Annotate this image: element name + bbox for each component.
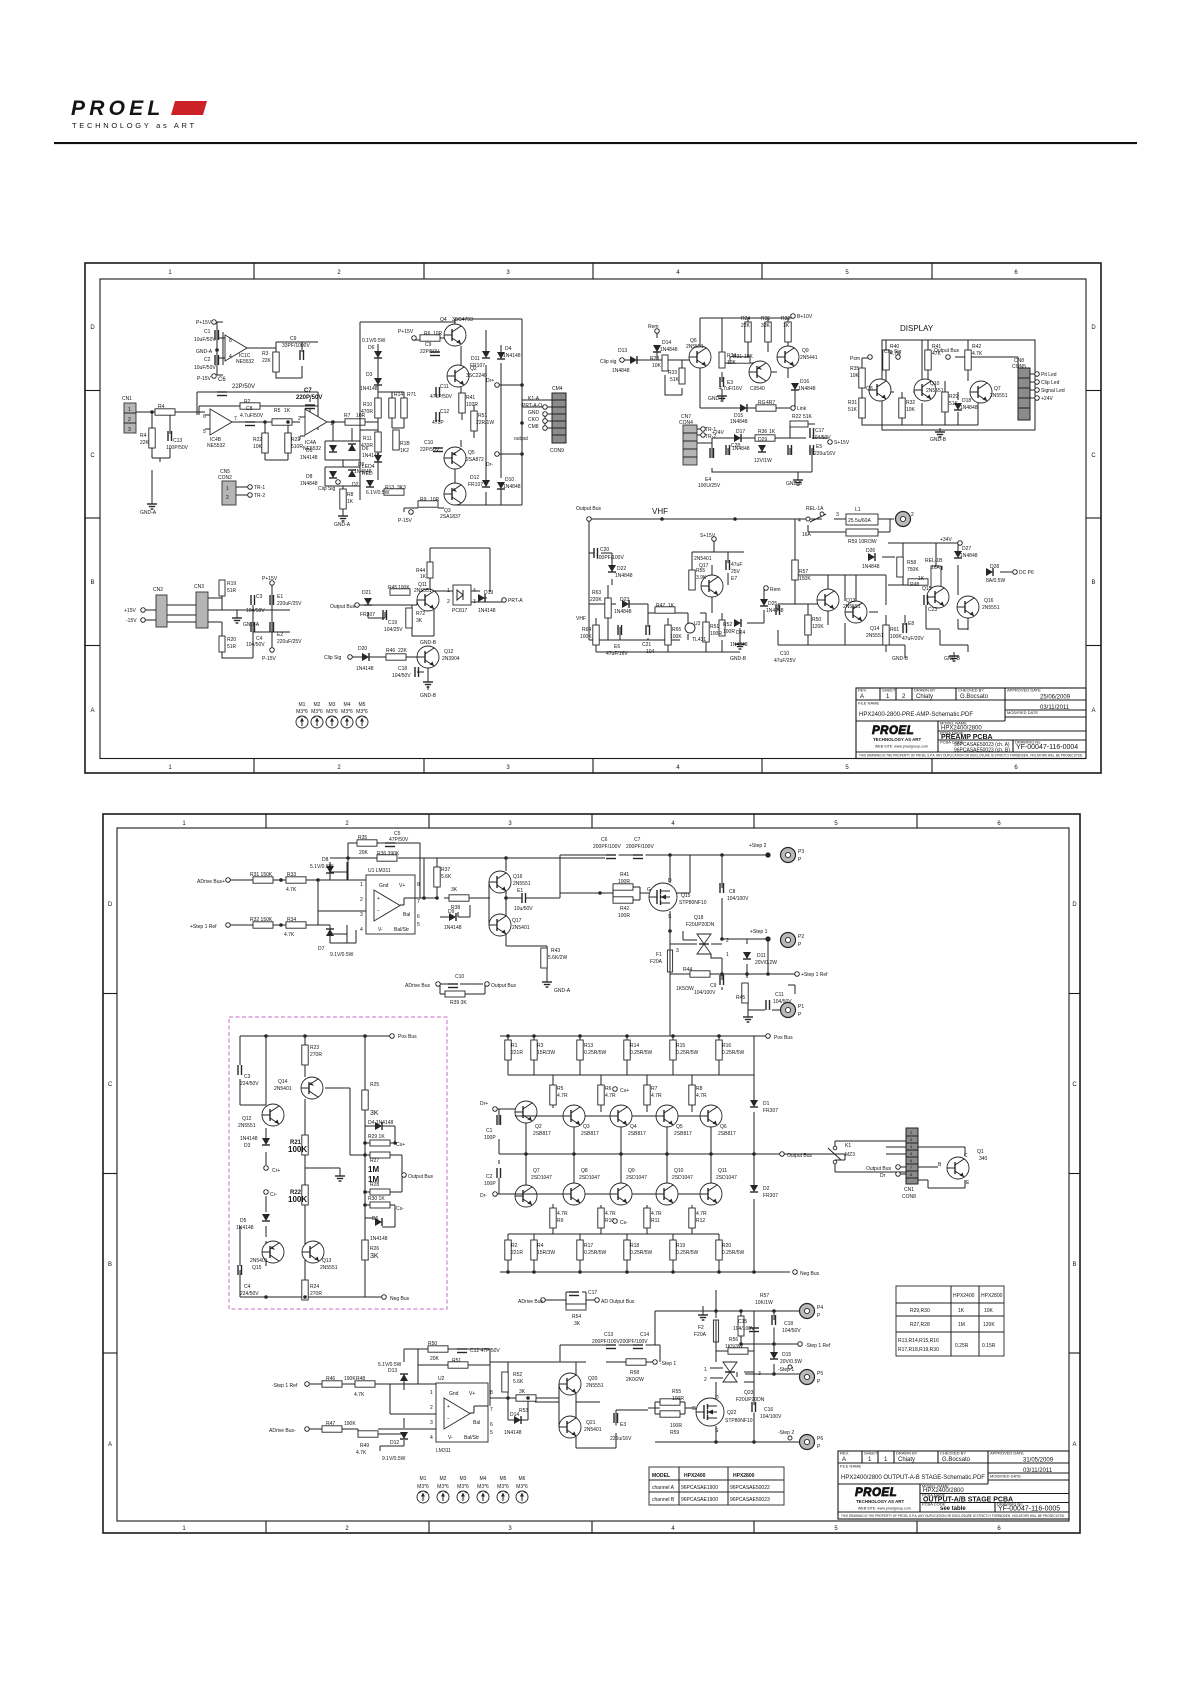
svg-text:2N5551: 2N5551 xyxy=(320,1265,338,1271)
svg-text:C16: C16 xyxy=(764,1407,773,1413)
svg-text:WEB SITE: www.proelgroup.com: WEB SITE: www.proelgroup.com xyxy=(875,745,928,749)
svg-text:22P/50V: 22P/50V xyxy=(420,447,440,453)
svg-text:channel A: channel A xyxy=(652,1485,675,1491)
svg-text:D6: D6 xyxy=(372,1216,379,1222)
svg-text:16A: 16A xyxy=(802,532,812,538)
svg-text:220uF/25V: 220uF/25V xyxy=(277,601,302,607)
svg-text:D8: D8 xyxy=(306,474,313,480)
svg-text:REV.: REV. xyxy=(840,1451,849,1456)
svg-text:A: A xyxy=(1072,1442,1076,1448)
svg-text:R18: R18 xyxy=(630,1243,639,1249)
svg-text:R7: R7 xyxy=(651,1086,658,1092)
svg-text:R19: R19 xyxy=(227,581,236,587)
svg-text:100R: 100R xyxy=(618,879,630,885)
svg-text:Dr+: Dr+ xyxy=(480,1101,488,1107)
svg-text:+: + xyxy=(377,896,380,902)
svg-text:GND-A: GND-A xyxy=(243,622,260,628)
svg-text:R10: R10 xyxy=(363,402,372,408)
svg-text:5.6K/2W: 5.6K/2W xyxy=(548,955,567,961)
svg-text:R50: R50 xyxy=(428,1341,437,1347)
svg-text:R19: R19 xyxy=(676,1243,685,1249)
svg-text:A: A xyxy=(108,1442,112,1448)
svg-text:R42: R42 xyxy=(620,906,629,912)
svg-text:E6: E6 xyxy=(614,644,620,650)
svg-text:4.7K: 4.7K xyxy=(284,932,295,938)
svg-text:10uF/50V: 10uF/50V xyxy=(194,337,216,343)
svg-text:96PCASAE50023: 96PCASAE50023 xyxy=(730,1497,770,1503)
svg-text:200PF/100V: 200PF/100V xyxy=(593,844,621,850)
svg-text:1N4148: 1N4148 xyxy=(236,1225,254,1231)
svg-text:A: A xyxy=(1091,708,1095,714)
svg-text:Chiaty: Chiaty xyxy=(898,1457,915,1463)
svg-text:V-: V- xyxy=(378,927,383,933)
svg-text:D16: D16 xyxy=(800,379,809,385)
svg-text:2: 2 xyxy=(704,1377,707,1383)
svg-text:SHEET: SHEET xyxy=(864,1451,878,1456)
svg-text:C13: C13 xyxy=(604,1332,613,1338)
svg-text:R51: R51 xyxy=(452,1358,461,1364)
svg-text:1N4148: 1N4148 xyxy=(370,1236,388,1242)
svg-text:R37: R37 xyxy=(441,867,450,873)
svg-text:HPX2400/2800 OUTPUT-A-B STAGE-: HPX2400/2800 OUTPUT-A-B STAGE-Schematic.… xyxy=(841,1475,985,1481)
svg-text:5.1V/0.5W: 5.1V/0.5W xyxy=(378,1362,402,1368)
svg-text:Output Bus: Output Bus xyxy=(491,983,517,989)
svg-text:GND: GND xyxy=(528,410,540,416)
svg-text:TR-2: TR-2 xyxy=(254,493,265,499)
svg-text:2: 2 xyxy=(360,897,363,903)
svg-text:4: 4 xyxy=(430,1435,433,1441)
svg-text:100K: 100K xyxy=(580,634,592,640)
svg-text:P2: P2 xyxy=(798,934,804,940)
svg-text:Q16: Q16 xyxy=(513,874,523,880)
svg-text:P: P xyxy=(817,1313,821,1319)
svg-text:1: 1 xyxy=(886,694,890,700)
svg-text:100U/25V: 100U/25V xyxy=(698,483,721,489)
svg-text:Bal: Bal xyxy=(473,1420,480,1426)
svg-text:2N5441: 2N5441 xyxy=(800,355,818,361)
svg-text:Q13: Q13 xyxy=(322,1258,332,1264)
svg-text:P4: P4 xyxy=(817,1305,823,1311)
svg-text:C4: C4 xyxy=(244,1284,251,1290)
svg-text:FR307: FR307 xyxy=(763,1193,778,1199)
svg-text:47uF: 47uF xyxy=(731,562,742,568)
svg-text:C21: C21 xyxy=(642,642,651,648)
svg-text:220u/16V: 220u/16V xyxy=(814,451,836,457)
svg-text:3SC2240: 3SC2240 xyxy=(466,373,487,379)
svg-text:P6: P6 xyxy=(817,1436,823,1442)
svg-text:Q2: Q2 xyxy=(535,1124,542,1130)
svg-text:10u/50V: 10u/50V xyxy=(514,906,533,912)
svg-text:104/100V: 104/100V xyxy=(760,1414,782,1420)
svg-text:470R: 470R xyxy=(361,409,373,415)
svg-text:C11: C11 xyxy=(440,384,449,390)
svg-text:D3: D3 xyxy=(366,372,373,378)
svg-text:R8: R8 xyxy=(347,492,354,498)
svg-text:R43: R43 xyxy=(551,948,560,954)
svg-text:1M: 1M xyxy=(368,1175,379,1184)
svg-text:D20: D20 xyxy=(358,646,367,652)
svg-text:1N4148: 1N4148 xyxy=(503,353,521,359)
svg-text:Q7: Q7 xyxy=(533,1168,540,1174)
svg-text:Cs-: Cs- xyxy=(396,1206,404,1212)
svg-text:25.5u/60A: 25.5u/60A xyxy=(848,518,871,524)
svg-text:Output Bus: Output Bus xyxy=(408,1174,434,1180)
svg-text:R4: R4 xyxy=(158,404,165,410)
svg-text:4.7uF/16V: 4.7uF/16V xyxy=(719,386,743,392)
svg-text:104/50V: 104/50V xyxy=(773,999,792,1005)
svg-text:D5: D5 xyxy=(240,1218,247,1224)
svg-text:5: 5 xyxy=(845,270,849,276)
svg-text:1N4848: 1N4848 xyxy=(862,564,880,570)
svg-text:REL-1A: REL-1A xyxy=(806,506,824,512)
svg-text:2N5401: 2N5401 xyxy=(584,1427,602,1433)
svg-text:Psm: Psm xyxy=(850,356,860,362)
svg-text:C9: C9 xyxy=(425,342,432,348)
svg-text:GND-B: GND-B xyxy=(708,396,725,402)
svg-text:R3: R3 xyxy=(262,351,269,357)
svg-text:22K: 22K xyxy=(398,648,408,654)
svg-text:1: 1 xyxy=(884,1457,888,1463)
svg-text:C9: C9 xyxy=(710,983,717,989)
svg-text:M3*6: M3*6 xyxy=(311,709,323,715)
svg-text:GND-A: GND-A xyxy=(196,349,213,355)
svg-text:10R: 10R xyxy=(433,331,443,337)
svg-text:4: 4 xyxy=(229,354,232,360)
svg-text:D29: D29 xyxy=(758,437,767,443)
svg-text:510R: 510R xyxy=(291,444,303,450)
svg-text:1K: 1K xyxy=(420,574,427,580)
svg-text:100R: 100R xyxy=(618,913,630,919)
svg-text:C23: C23 xyxy=(928,607,937,613)
svg-text:6: 6 xyxy=(1014,765,1018,771)
svg-text:221R: 221R xyxy=(511,1050,523,1056)
svg-text:R51: R51 xyxy=(478,413,487,419)
svg-text:3: 3 xyxy=(836,512,839,518)
svg-text:R31: R31 xyxy=(848,400,857,406)
svg-text:PROEL: PROEL xyxy=(855,1487,897,1499)
svg-text:D13: D13 xyxy=(388,1368,397,1374)
svg-text:see table: see table xyxy=(940,1506,966,1512)
svg-text:0.25R/5W: 0.25R/5W xyxy=(630,1250,653,1256)
svg-text:10R: 10R xyxy=(430,497,440,503)
svg-text:NE5532: NE5532 xyxy=(236,359,254,365)
svg-text:1: 1 xyxy=(868,1457,872,1463)
svg-text:D11: D11 xyxy=(471,356,480,362)
svg-text:C17: C17 xyxy=(588,1290,597,1296)
svg-text:TR-1: TR-1 xyxy=(254,485,265,491)
svg-text:221R: 221R xyxy=(511,1250,523,1256)
svg-text:M3*6: M3*6 xyxy=(326,709,338,715)
svg-text:HPX2800: HPX2800 xyxy=(981,1293,1003,1299)
svg-text:5.6K: 5.6K xyxy=(441,874,452,880)
svg-text:4.7R: 4.7R xyxy=(651,1211,662,1217)
svg-text:+Step 1: +Step 1 xyxy=(750,929,768,935)
svg-text:R20: R20 xyxy=(227,637,236,643)
svg-text:0.25R/5W: 0.25R/5W xyxy=(584,1250,607,1256)
svg-text:M1: M1 xyxy=(420,1476,427,1482)
svg-text:1N4148: 1N4148 xyxy=(478,608,496,614)
svg-text:GND-B: GND-B xyxy=(930,437,947,443)
svg-text:P5: P5 xyxy=(817,1371,823,1377)
svg-text:R36: R36 xyxy=(758,429,767,435)
svg-text:PREAMP PCBA: PREAMP PCBA xyxy=(941,734,993,741)
svg-text:100R: 100R xyxy=(710,631,722,637)
svg-text:Q7: Q7 xyxy=(994,386,1001,392)
svg-text:C9540: C9540 xyxy=(750,386,765,392)
svg-text:M5: M5 xyxy=(359,702,366,708)
svg-text:LM311: LM311 xyxy=(436,1448,451,1454)
svg-text:2N5551: 2N5551 xyxy=(990,393,1008,399)
svg-text:120K: 120K xyxy=(812,624,824,630)
svg-text:Q5: Q5 xyxy=(468,450,475,456)
svg-text:3: 3 xyxy=(430,1420,433,1426)
svg-text:D8: D8 xyxy=(322,857,329,863)
svg-text:GND-B: GND-B xyxy=(892,656,909,662)
svg-text:L1: L1 xyxy=(855,507,861,513)
svg-text:Cr-: Cr- xyxy=(270,1192,277,1198)
svg-text:M3: M3 xyxy=(329,702,336,708)
svg-text:100P/50V: 100P/50V xyxy=(166,445,189,451)
svg-text:R12: R12 xyxy=(696,1218,705,1224)
svg-text:1M: 1M xyxy=(368,1165,379,1174)
svg-text:FR107: FR107 xyxy=(470,363,485,369)
svg-text:D17: D17 xyxy=(736,429,745,435)
svg-text:1: 1 xyxy=(226,486,229,492)
svg-text:R54: R54 xyxy=(572,1314,581,1320)
svg-text:D: D xyxy=(90,325,95,331)
svg-text:Neg Bus: Neg Bus xyxy=(390,1296,410,1302)
svg-text:Chiaty: Chiaty xyxy=(916,694,933,700)
svg-text:5: 5 xyxy=(490,1430,493,1436)
svg-text:F20A: F20A xyxy=(694,1332,707,1338)
svg-text:R9: R9 xyxy=(557,1218,564,1224)
svg-text:D4 1N4148: D4 1N4148 xyxy=(368,1120,394,1126)
svg-text:G: G xyxy=(647,887,651,893)
svg-text:96PCASAE1900: 96PCASAE1900 xyxy=(681,1485,718,1491)
svg-text:C19: C19 xyxy=(388,620,397,626)
svg-text:CON4: CON4 xyxy=(679,420,693,426)
svg-text:C1: C1 xyxy=(486,1128,493,1134)
svg-text:D15: D15 xyxy=(782,1352,791,1358)
svg-text:R71: R71 xyxy=(407,392,416,398)
svg-text:D7: D7 xyxy=(318,946,325,952)
svg-text:B: B xyxy=(1072,1262,1076,1268)
svg-text:Bal: Bal xyxy=(403,912,410,918)
svg-text:M3*6: M3*6 xyxy=(457,1484,469,1490)
svg-text:D: D xyxy=(715,1395,719,1401)
svg-text:R8: R8 xyxy=(696,1086,703,1092)
svg-text:1K5/3W: 1K5/3W xyxy=(676,986,694,992)
svg-text:R33: R33 xyxy=(287,872,296,878)
svg-text:C: C xyxy=(108,1082,113,1088)
svg-text:104/100V: 104/100V xyxy=(694,990,716,996)
svg-text:Dr-: Dr- xyxy=(486,462,493,468)
svg-text:P1: P1 xyxy=(798,1004,804,1010)
svg-text:G.Bocsato: G.Bocsato xyxy=(942,1457,971,1463)
svg-text:2: 2 xyxy=(128,417,131,423)
svg-text:200PF/100V: 200PF/100V xyxy=(626,844,654,850)
svg-text:220P/50V: 220P/50V xyxy=(296,395,322,401)
svg-text:D6: D6 xyxy=(368,345,375,351)
svg-text:100P: 100P xyxy=(484,1181,496,1187)
svg-text:C8: C8 xyxy=(246,406,253,412)
svg-text:R34: R34 xyxy=(287,917,296,923)
svg-text:F20UP20DN: F20UP20DN xyxy=(736,1397,765,1403)
svg-text:D5: D5 xyxy=(306,448,313,454)
svg-text:C20: C20 xyxy=(600,547,609,553)
svg-text:Q15: Q15 xyxy=(922,586,932,592)
svg-text:1K2: 1K2 xyxy=(400,448,409,454)
svg-text:D27: D27 xyxy=(962,546,971,552)
svg-text:25/06/2009: 25/06/2009 xyxy=(1040,695,1071,701)
svg-text:M1: M1 xyxy=(299,702,306,708)
svg-text:PROEL: PROEL xyxy=(71,97,164,120)
svg-text:R65: R65 xyxy=(672,627,681,633)
svg-text:C15: C15 xyxy=(738,1319,747,1325)
svg-text:3SC4793: 3SC4793 xyxy=(452,317,473,323)
svg-text:2: 2 xyxy=(447,599,450,605)
svg-text:R55: R55 xyxy=(672,1389,681,1395)
svg-text:CM4: CM4 xyxy=(552,386,563,392)
svg-text:2N5551: 2N5551 xyxy=(513,881,531,887)
svg-text:Q16: Q16 xyxy=(984,598,994,604)
svg-text:3K: 3K xyxy=(370,1253,379,1260)
svg-text:R59: R59 xyxy=(670,1430,679,1436)
svg-text:R58: R58 xyxy=(630,1370,639,1376)
svg-text:96PCASAE1900: 96PCASAE1900 xyxy=(681,1497,718,1503)
svg-text:2N5551: 2N5551 xyxy=(414,588,432,594)
svg-text:Rem: Rem xyxy=(648,324,659,330)
svg-text:2K0/2W: 2K0/2W xyxy=(626,1377,644,1383)
svg-text:100K: 100K xyxy=(670,634,682,640)
svg-text:Pit Led: Pit Led xyxy=(1041,372,1057,378)
svg-text:1N4848: 1N4848 xyxy=(300,481,318,487)
svg-text:3K: 3K xyxy=(574,1321,581,1327)
svg-text:YF-00047-116-0004: YF-00047-116-0004 xyxy=(1016,744,1078,751)
svg-text:1: 1 xyxy=(704,1367,707,1373)
svg-text:5: 5 xyxy=(834,1526,838,1532)
svg-text:2: 2 xyxy=(726,938,729,944)
svg-text:+Step 2: +Step 2 xyxy=(749,843,767,849)
svg-text:K1: K1 xyxy=(845,1143,851,1149)
svg-text:R52: R52 xyxy=(513,1372,522,1378)
svg-text:33K: 33K xyxy=(761,323,771,329)
svg-text:2SB817: 2SB817 xyxy=(581,1131,599,1137)
svg-text:OUTPUT-A/B STAGE PCBA: OUTPUT-A/B STAGE PCBA xyxy=(923,1497,1013,1504)
svg-text:D14: D14 xyxy=(662,340,671,346)
svg-text:R14: R14 xyxy=(630,1043,639,1049)
svg-text:GND-B: GND-B xyxy=(420,640,437,646)
svg-text:Q14: Q14 xyxy=(278,1079,288,1085)
svg-text:10K: 10K xyxy=(850,373,860,379)
svg-text:22P/50V: 22P/50V xyxy=(420,349,440,355)
svg-text:P+15V: P+15V xyxy=(196,320,212,326)
svg-text:R35: R35 xyxy=(761,316,770,322)
svg-text:C10: C10 xyxy=(424,440,433,446)
svg-text:8: 8 xyxy=(229,338,232,344)
svg-text:Q4: Q4 xyxy=(630,1124,637,1130)
svg-text:S: S xyxy=(668,914,672,920)
svg-text:R50: R50 xyxy=(812,617,821,623)
svg-text:+Step 1 Ref: +Step 1 Ref xyxy=(190,924,217,930)
svg-text:20K: 20K xyxy=(359,850,369,856)
svg-text:Rem: Rem xyxy=(770,587,781,593)
svg-text:6: 6 xyxy=(1014,270,1018,276)
svg-text:Output Bus: Output Bus xyxy=(934,348,960,354)
svg-text:6: 6 xyxy=(203,414,206,420)
svg-text:FR307: FR307 xyxy=(763,1108,778,1114)
svg-text:G: G xyxy=(692,1406,696,1412)
svg-text:20V/0.5W: 20V/0.5W xyxy=(780,1359,802,1365)
svg-text:4.7R: 4.7R xyxy=(557,1093,568,1099)
svg-text:AD Output Bus: AD Output Bus xyxy=(601,1299,635,1305)
svg-text:R49: R49 xyxy=(360,1443,369,1449)
svg-text:K1-A: K1-A xyxy=(528,396,540,402)
svg-text:VHF: VHF xyxy=(576,616,586,622)
svg-text:51K: 51K xyxy=(670,377,680,383)
svg-text:F20UP20DN: F20UP20DN xyxy=(686,922,715,928)
svg-text:471P/50V: 471P/50V xyxy=(430,394,453,400)
svg-text:D24: D24 xyxy=(736,630,745,636)
svg-text:CON9: CON9 xyxy=(550,448,564,454)
svg-text:100PF/100V: 100PF/100V xyxy=(596,555,624,561)
svg-text:R45: R45 xyxy=(388,585,397,591)
svg-text:P-15V: P-15V xyxy=(197,376,212,382)
svg-text:C: C xyxy=(1072,1082,1077,1088)
svg-text:SHEET: SHEET xyxy=(882,688,896,693)
svg-text:4: 4 xyxy=(671,821,675,827)
svg-text:D12: D12 xyxy=(470,475,479,481)
svg-text:Link: Link xyxy=(797,406,807,412)
svg-text:R32 150K: R32 150K xyxy=(250,917,273,923)
svg-text:12V/1W: 12V/1W xyxy=(754,458,772,464)
svg-text:Q12: Q12 xyxy=(444,649,454,655)
svg-text:7: 7 xyxy=(417,899,420,905)
svg-text:Q5: Q5 xyxy=(676,1124,683,1130)
svg-text:Q10: Q10 xyxy=(930,381,940,387)
svg-text:22K: 22K xyxy=(140,440,150,446)
svg-text:FR107: FR107 xyxy=(468,482,483,488)
svg-text:C18: C18 xyxy=(398,666,407,672)
svg-text:0.25R/5W: 0.25R/5W xyxy=(630,1050,653,1056)
svg-text:4.7K: 4.7K xyxy=(356,1450,367,1456)
svg-text:3K: 3K xyxy=(370,1110,379,1117)
svg-text:DRAWN BY: DRAWN BY xyxy=(914,688,936,693)
svg-text:0.25R/5W: 0.25R/5W xyxy=(584,1050,607,1056)
svg-text:Bal/Str: Bal/Str xyxy=(464,1435,479,1441)
svg-text:20V/0.2W: 20V/0.2W xyxy=(755,960,777,966)
svg-text:2N5551: 2N5551 xyxy=(926,388,944,394)
svg-text:Q20: Q20 xyxy=(588,1376,598,1382)
svg-text:Neg Bus: Neg Bus xyxy=(800,1271,820,1277)
svg-text:C14: C14 xyxy=(640,1332,649,1338)
svg-text:4: 4 xyxy=(798,518,801,524)
svg-text:R46: R46 xyxy=(326,1376,335,1382)
svg-text:2: 2 xyxy=(337,765,341,771)
svg-text:Q1: Q1 xyxy=(977,1149,984,1155)
svg-text:C10: C10 xyxy=(455,974,464,980)
svg-text:1: 1 xyxy=(726,952,729,958)
svg-text:E7: E7 xyxy=(731,576,737,582)
svg-text:MZ3: MZ3 xyxy=(845,1152,855,1158)
svg-text:51R: 51R xyxy=(227,588,237,594)
svg-text:0.15R: 0.15R xyxy=(982,1343,996,1349)
svg-text:U3: U3 xyxy=(694,621,701,627)
svg-text:S+15V: S+15V xyxy=(700,533,716,539)
svg-text:1K: 1K xyxy=(347,499,354,505)
svg-text:D9: D9 xyxy=(358,462,365,468)
svg-text:104/50V: 104/50V xyxy=(782,1328,801,1334)
